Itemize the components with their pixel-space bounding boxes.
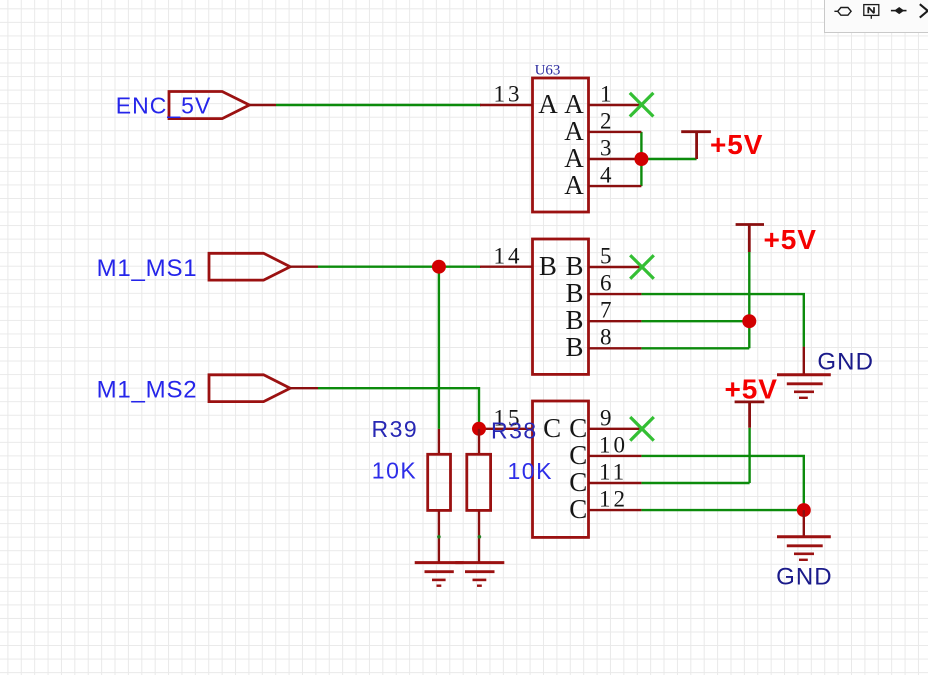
wire ENC_5V horizontal bbox=[276, 104, 481, 106]
wire pin12 bbox=[641, 509, 803, 511]
svg-text:10K: 10K bbox=[372, 458, 417, 484]
svg-text:A: A bbox=[564, 89, 584, 119]
wire M1_MS2 horizontal bbox=[318, 388, 479, 429]
svg-text:9: 9 bbox=[600, 406, 615, 431]
svg-text:C: C bbox=[543, 413, 561, 443]
power symbol +5V no3 bbox=[725, 374, 778, 428]
pin 2 of U63 bbox=[564, 109, 641, 147]
wire M1_MS1 horizontal bbox=[318, 266, 481, 268]
svg-text:10: 10 bbox=[599, 433, 628, 458]
toolbar icon: net label (hexagon) bbox=[834, 8, 851, 16]
svg-text:C: C bbox=[569, 413, 587, 443]
junction pin12 GND node bbox=[797, 503, 811, 517]
svg-text:R39: R39 bbox=[372, 416, 419, 442]
svg-text:7: 7 bbox=[600, 298, 615, 323]
svg-text:1: 1 bbox=[600, 82, 615, 107]
svg-text:B: B bbox=[566, 251, 584, 281]
pin 6 of U63 bbox=[566, 271, 642, 309]
wire pin8 bbox=[641, 347, 749, 349]
wire pin10 to GND bbox=[641, 456, 803, 510]
power symbol +5V no2 bbox=[736, 224, 817, 255]
svg-text:B: B bbox=[566, 305, 584, 335]
svg-text:+5V: +5V bbox=[764, 224, 817, 255]
svg-text:GND: GND bbox=[776, 564, 833, 591]
toolbar icon: netclass directive (N box) bbox=[864, 5, 879, 19]
wire +5V no2 vertical bbox=[748, 252, 750, 348]
power symbol +5V no1 bbox=[681, 129, 763, 160]
wire stub M1_MS1 bbox=[290, 266, 318, 268]
resistor network U63 section C box bbox=[533, 401, 589, 537]
svg-text:C: C bbox=[569, 494, 587, 524]
pin 9 of U63 bbox=[569, 406, 640, 444]
svg-text:+5V: +5V bbox=[725, 374, 778, 405]
svg-text:C: C bbox=[569, 440, 587, 470]
ground GND no2 bbox=[776, 510, 833, 590]
wire pin3 to +5V bbox=[641, 158, 696, 160]
pin 15 of U63 bbox=[479, 406, 561, 444]
svg-text:11: 11 bbox=[599, 459, 627, 484]
wire pin6 to GND bbox=[641, 294, 803, 347]
svg-text:12: 12 bbox=[599, 487, 628, 512]
resistor R38 bbox=[467, 418, 553, 563]
pin 10 of U63 bbox=[569, 433, 641, 471]
svg-text:ENC_5V: ENC_5V bbox=[116, 92, 211, 118]
svg-text:M1_MS2: M1_MS2 bbox=[97, 376, 198, 403]
wire stub M1_MS2 bbox=[290, 387, 318, 389]
hierarchical label ENC_5V bbox=[116, 92, 250, 119]
toolbar icon: junction (diamond on line) bbox=[891, 8, 907, 13]
svg-text:10K: 10K bbox=[508, 458, 553, 484]
wire M1_MS1 to R39 vertical bbox=[438, 267, 440, 429]
svg-text:A: A bbox=[564, 116, 584, 146]
pin 12 of U63 bbox=[569, 487, 641, 525]
junction M1_MS1 node bbox=[432, 260, 446, 274]
pin 3 of U63 bbox=[564, 136, 641, 174]
svg-text:A: A bbox=[564, 170, 584, 200]
resistor network U63 section B box bbox=[533, 239, 589, 374]
svg-text:M1_MS1: M1_MS1 bbox=[97, 255, 198, 282]
ground GND R39 bbox=[415, 563, 464, 586]
wire pin11 bbox=[641, 482, 749, 484]
pin 1 of U63 bbox=[564, 82, 640, 120]
pin 5 of U63 bbox=[566, 244, 641, 282]
svg-text:B: B bbox=[566, 278, 584, 308]
pin end node R38 bbox=[478, 535, 482, 539]
hierarchical label M1_MS2 bbox=[97, 375, 291, 404]
svg-text:4: 4 bbox=[600, 163, 615, 188]
svg-text:B: B bbox=[566, 332, 584, 362]
hierarchical label M1_MS1 bbox=[97, 253, 291, 282]
toolbar icon: wire-to-bus entry (partial, at edge) bbox=[920, 4, 928, 17]
toolbar panel bbox=[824, 0, 928, 33]
wire +5V no3 vertical bbox=[748, 428, 750, 483]
resistor R39 bbox=[372, 416, 451, 562]
pin 7 of U63 bbox=[566, 298, 642, 336]
junction pin7 node bbox=[742, 314, 756, 328]
wire pins 2-4 vertical bus bbox=[640, 132, 642, 186]
svg-text:14: 14 bbox=[494, 244, 523, 269]
resistor network U63 section A box bbox=[533, 78, 589, 212]
svg-text:3: 3 bbox=[600, 136, 615, 161]
svg-text:6: 6 bbox=[600, 271, 615, 296]
wire pin7 bbox=[641, 320, 749, 322]
no-connect X pin 5 bbox=[630, 255, 654, 279]
svg-text:A: A bbox=[538, 89, 558, 119]
svg-text:U63: U63 bbox=[535, 63, 561, 79]
svg-text:B: B bbox=[539, 251, 557, 281]
ground GND no1 bbox=[777, 347, 874, 398]
junction pin15 node bbox=[472, 422, 486, 436]
junction pin3 node bbox=[634, 152, 648, 166]
svg-text:13: 13 bbox=[494, 82, 523, 107]
svg-text:R38: R38 bbox=[491, 418, 538, 444]
pin 11 of U63 bbox=[569, 459, 641, 497]
svg-text:+5V: +5V bbox=[710, 129, 763, 160]
no-connect X pin 1 bbox=[630, 93, 654, 117]
ground GND R38 bbox=[455, 563, 504, 586]
svg-text:C: C bbox=[569, 467, 587, 497]
pin 4 of U63 bbox=[564, 163, 641, 201]
svg-text:GND: GND bbox=[817, 349, 874, 376]
pin 14 of U63 bbox=[480, 244, 557, 282]
svg-text:A: A bbox=[564, 143, 584, 173]
pin 13 of U63 bbox=[480, 82, 558, 120]
no-connect X pin 9 bbox=[630, 417, 654, 441]
svg-text:2: 2 bbox=[600, 109, 615, 134]
wire stub ENC_5V bbox=[249, 104, 276, 106]
svg-text:5: 5 bbox=[600, 244, 615, 269]
pin end node R39 bbox=[437, 535, 441, 539]
svg-text:8: 8 bbox=[600, 325, 615, 350]
pin 8 of U63 bbox=[566, 325, 642, 363]
